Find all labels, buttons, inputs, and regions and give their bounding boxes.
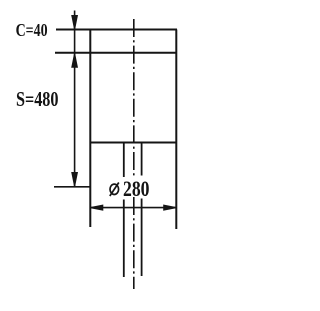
svg-text:S=480: S=480 bbox=[16, 87, 59, 111]
svg-text:C=40: C=40 bbox=[16, 20, 48, 40]
svg-text:280: 280 bbox=[123, 176, 150, 201]
